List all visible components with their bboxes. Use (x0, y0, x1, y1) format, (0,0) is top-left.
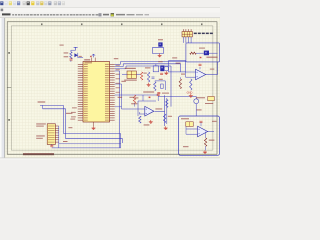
svg-text:GND: GND (187, 90, 193, 94)
